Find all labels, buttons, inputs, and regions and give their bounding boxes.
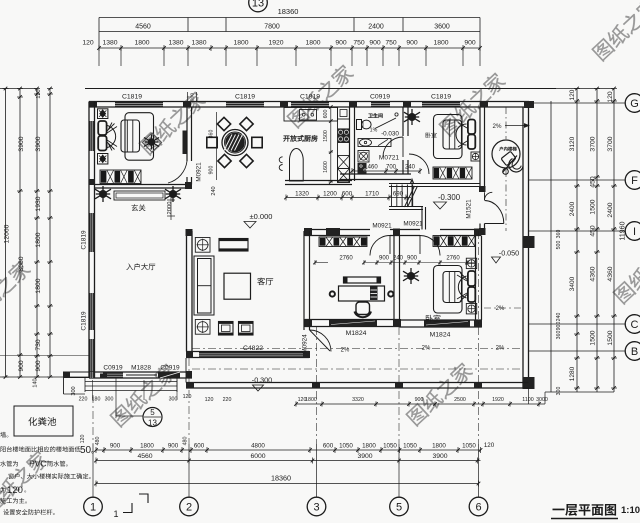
svg-text:2400: 2400	[607, 202, 614, 217]
svg-text:1600: 1600	[323, 161, 329, 173]
svg-text:-0.030: -0.030	[381, 131, 399, 138]
svg-text:3900: 3900	[432, 453, 447, 460]
svg-text:6000: 6000	[250, 453, 265, 460]
svg-text:240: 240	[405, 165, 416, 171]
svg-text:3000: 3000	[536, 397, 548, 403]
svg-text:M1828: M1828	[131, 365, 151, 372]
svg-text:1050: 1050	[403, 443, 417, 450]
svg-text:120: 120	[183, 394, 192, 400]
svg-text:3900: 3900	[357, 453, 372, 460]
svg-text:900: 900	[406, 40, 418, 47]
svg-text:11960: 11960	[620, 221, 627, 240]
svg-text:3700: 3700	[590, 136, 597, 151]
svg-text:B: B	[631, 346, 638, 358]
svg-text:1280: 1280	[569, 366, 576, 381]
svg-text:1:10: 1:10	[621, 505, 640, 516]
svg-text:300: 300	[556, 387, 562, 396]
svg-text:M0721: M0721	[379, 155, 399, 162]
svg-text:3120: 3120	[569, 136, 576, 151]
svg-text:5: 5	[396, 502, 402, 514]
svg-text:6: 6	[475, 502, 481, 514]
svg-text:3700: 3700	[607, 136, 614, 151]
svg-text:13: 13	[252, 0, 264, 10]
svg-text:450: 450	[590, 176, 597, 188]
svg-text:2%: 2%	[496, 306, 505, 312]
svg-text:240: 240	[393, 256, 404, 262]
svg-text:900: 900	[18, 360, 25, 372]
svg-text:2: 2	[186, 502, 192, 514]
svg-text:M1824: M1824	[346, 330, 367, 337]
svg-text:2760: 2760	[446, 256, 460, 262]
svg-text:900: 900	[168, 443, 179, 450]
svg-text:450: 450	[590, 225, 597, 237]
svg-text:F: F	[631, 175, 638, 187]
svg-text:900: 900	[209, 166, 215, 175]
svg-text:1380: 1380	[168, 40, 183, 47]
svg-text:C1819: C1819	[122, 94, 142, 101]
svg-text:120: 120	[7, 485, 23, 496]
svg-text:1800: 1800	[140, 443, 154, 450]
svg-text:4560: 4560	[135, 24, 151, 31]
svg-text:3900: 3900	[18, 136, 25, 151]
svg-text:2500: 2500	[454, 397, 466, 403]
svg-text:1920: 1920	[492, 397, 504, 403]
svg-text:1: 1	[113, 509, 118, 519]
svg-text:900: 900	[335, 40, 347, 47]
svg-text:C1819: C1819	[81, 311, 88, 331]
svg-text:600: 600	[323, 110, 329, 119]
svg-text:1500: 1500	[590, 199, 597, 214]
svg-text:3600: 3600	[434, 24, 450, 31]
svg-text:900: 900	[464, 40, 476, 47]
svg-text:M0921: M0921	[196, 162, 203, 182]
svg-text:4360: 4360	[590, 266, 597, 281]
svg-text:50: 50	[80, 445, 92, 456]
svg-text:1800: 1800	[432, 443, 446, 450]
svg-text:220: 220	[223, 397, 232, 403]
svg-text:M0921: M0921	[403, 221, 423, 228]
svg-text:900: 900	[369, 40, 381, 47]
svg-text:1800: 1800	[305, 397, 317, 403]
svg-text:I: I	[633, 226, 636, 238]
svg-text:2400: 2400	[368, 24, 384, 31]
svg-text:200: 200	[190, 93, 196, 101]
svg-text:480: 480	[95, 437, 101, 446]
svg-text:1200: 1200	[323, 191, 337, 198]
svg-text:360: 360	[556, 331, 562, 340]
svg-text:1050: 1050	[383, 443, 397, 450]
svg-text:480: 480	[183, 437, 189, 446]
svg-text:240: 240	[556, 313, 562, 322]
svg-text:600: 600	[342, 191, 353, 198]
svg-text:2%: 2%	[422, 346, 431, 352]
svg-text:1500: 1500	[607, 330, 614, 345]
svg-text:900: 900	[379, 256, 390, 262]
svg-text:2000: 2000	[167, 202, 173, 215]
svg-text:240: 240	[211, 186, 217, 195]
svg-text:2400: 2400	[569, 201, 576, 216]
svg-text:900: 900	[407, 256, 418, 262]
svg-text:4560: 4560	[137, 453, 152, 460]
svg-text:M0924: M0924	[302, 334, 309, 354]
svg-text:PVC: PVC	[29, 459, 46, 469]
svg-text:C1819: C1819	[235, 94, 255, 101]
svg-text:2760: 2760	[339, 256, 353, 262]
svg-text:1800: 1800	[433, 40, 448, 47]
svg-text:750: 750	[385, 40, 397, 47]
svg-text:1800: 1800	[35, 232, 42, 247]
svg-text:2%: 2%	[341, 348, 350, 354]
svg-text:1320: 1320	[295, 191, 309, 198]
svg-text:13: 13	[148, 419, 157, 428]
svg-text:±0.000: ±0.000	[250, 212, 273, 221]
svg-text:3400: 3400	[569, 276, 576, 291]
svg-text:750: 750	[353, 40, 365, 47]
svg-text:1500: 1500	[590, 330, 597, 345]
svg-text:1930: 1930	[35, 196, 42, 211]
svg-text:2%: 2%	[493, 123, 502, 130]
svg-text:7800: 7800	[264, 24, 280, 31]
svg-text:C0919: C0919	[103, 365, 123, 372]
svg-text:900: 900	[35, 360, 42, 372]
svg-text:G: G	[630, 98, 639, 110]
svg-text:900: 900	[415, 397, 424, 403]
svg-text:300: 300	[105, 397, 114, 403]
svg-text:500: 500	[556, 241, 562, 250]
svg-text:120: 120	[484, 442, 495, 449]
svg-text:900: 900	[556, 322, 562, 331]
svg-text:3320: 3320	[352, 397, 364, 403]
svg-text:1800: 1800	[233, 40, 248, 47]
svg-text:600: 600	[194, 443, 205, 450]
svg-text:1460: 1460	[364, 165, 378, 171]
svg-text:C0919: C0919	[160, 365, 180, 372]
svg-text:360: 360	[556, 230, 562, 239]
svg-text:1380: 1380	[102, 40, 117, 47]
svg-text:18360: 18360	[278, 7, 299, 16]
svg-text:2%: 2%	[496, 346, 505, 352]
svg-text:900: 900	[110, 443, 121, 450]
svg-text:M1521: M1521	[466, 199, 473, 219]
svg-text:1050: 1050	[339, 443, 353, 450]
svg-text:1800: 1800	[35, 278, 42, 293]
svg-text:1500: 1500	[323, 130, 329, 142]
svg-text:120: 120	[82, 40, 94, 47]
svg-text:12060: 12060	[4, 224, 11, 243]
svg-text:360: 360	[209, 130, 215, 139]
svg-text:4360: 4360	[607, 266, 614, 281]
svg-text:C: C	[631, 319, 639, 331]
svg-text:3: 3	[313, 502, 319, 514]
svg-text:C1819: C1819	[431, 94, 451, 101]
svg-text:120: 120	[36, 89, 42, 98]
svg-text:120: 120	[569, 89, 576, 100]
svg-text:1800: 1800	[134, 40, 149, 47]
svg-text:220: 220	[79, 397, 88, 403]
svg-text:8060: 8060	[18, 256, 25, 271]
svg-text:1800: 1800	[305, 40, 320, 47]
svg-text:1: 1	[90, 502, 96, 514]
svg-text:C1819: C1819	[81, 230, 88, 250]
svg-text:600: 600	[323, 443, 334, 450]
svg-text:-0.050: -0.050	[499, 249, 519, 258]
svg-text:1380: 1380	[191, 40, 206, 47]
svg-text:140: 140	[33, 378, 39, 387]
svg-text:4800: 4800	[251, 443, 265, 450]
svg-text:-0.300: -0.300	[438, 193, 461, 202]
svg-text:C1819: C1819	[300, 94, 320, 101]
svg-text:1920: 1920	[268, 40, 283, 47]
svg-text:C0919: C0919	[370, 94, 390, 101]
svg-text:1%: 1%	[370, 128, 378, 134]
svg-text:120: 120	[80, 435, 86, 444]
svg-text:3900: 3900	[35, 136, 42, 151]
svg-text:1800: 1800	[362, 443, 376, 450]
svg-text:-0.300: -0.300	[252, 376, 272, 385]
svg-text:M0921: M0921	[372, 223, 392, 230]
svg-text:M1824: M1824	[430, 332, 451, 339]
svg-text:730: 730	[35, 339, 42, 351]
svg-text:120: 120	[205, 397, 214, 403]
svg-text:300: 300	[169, 397, 178, 403]
svg-text:120: 120	[607, 91, 614, 103]
svg-text:1710: 1710	[365, 191, 379, 198]
svg-text:1050: 1050	[462, 443, 476, 450]
svg-text:1100: 1100	[522, 397, 533, 403]
svg-text:5: 5	[150, 408, 155, 417]
svg-text:18360: 18360	[271, 474, 291, 483]
